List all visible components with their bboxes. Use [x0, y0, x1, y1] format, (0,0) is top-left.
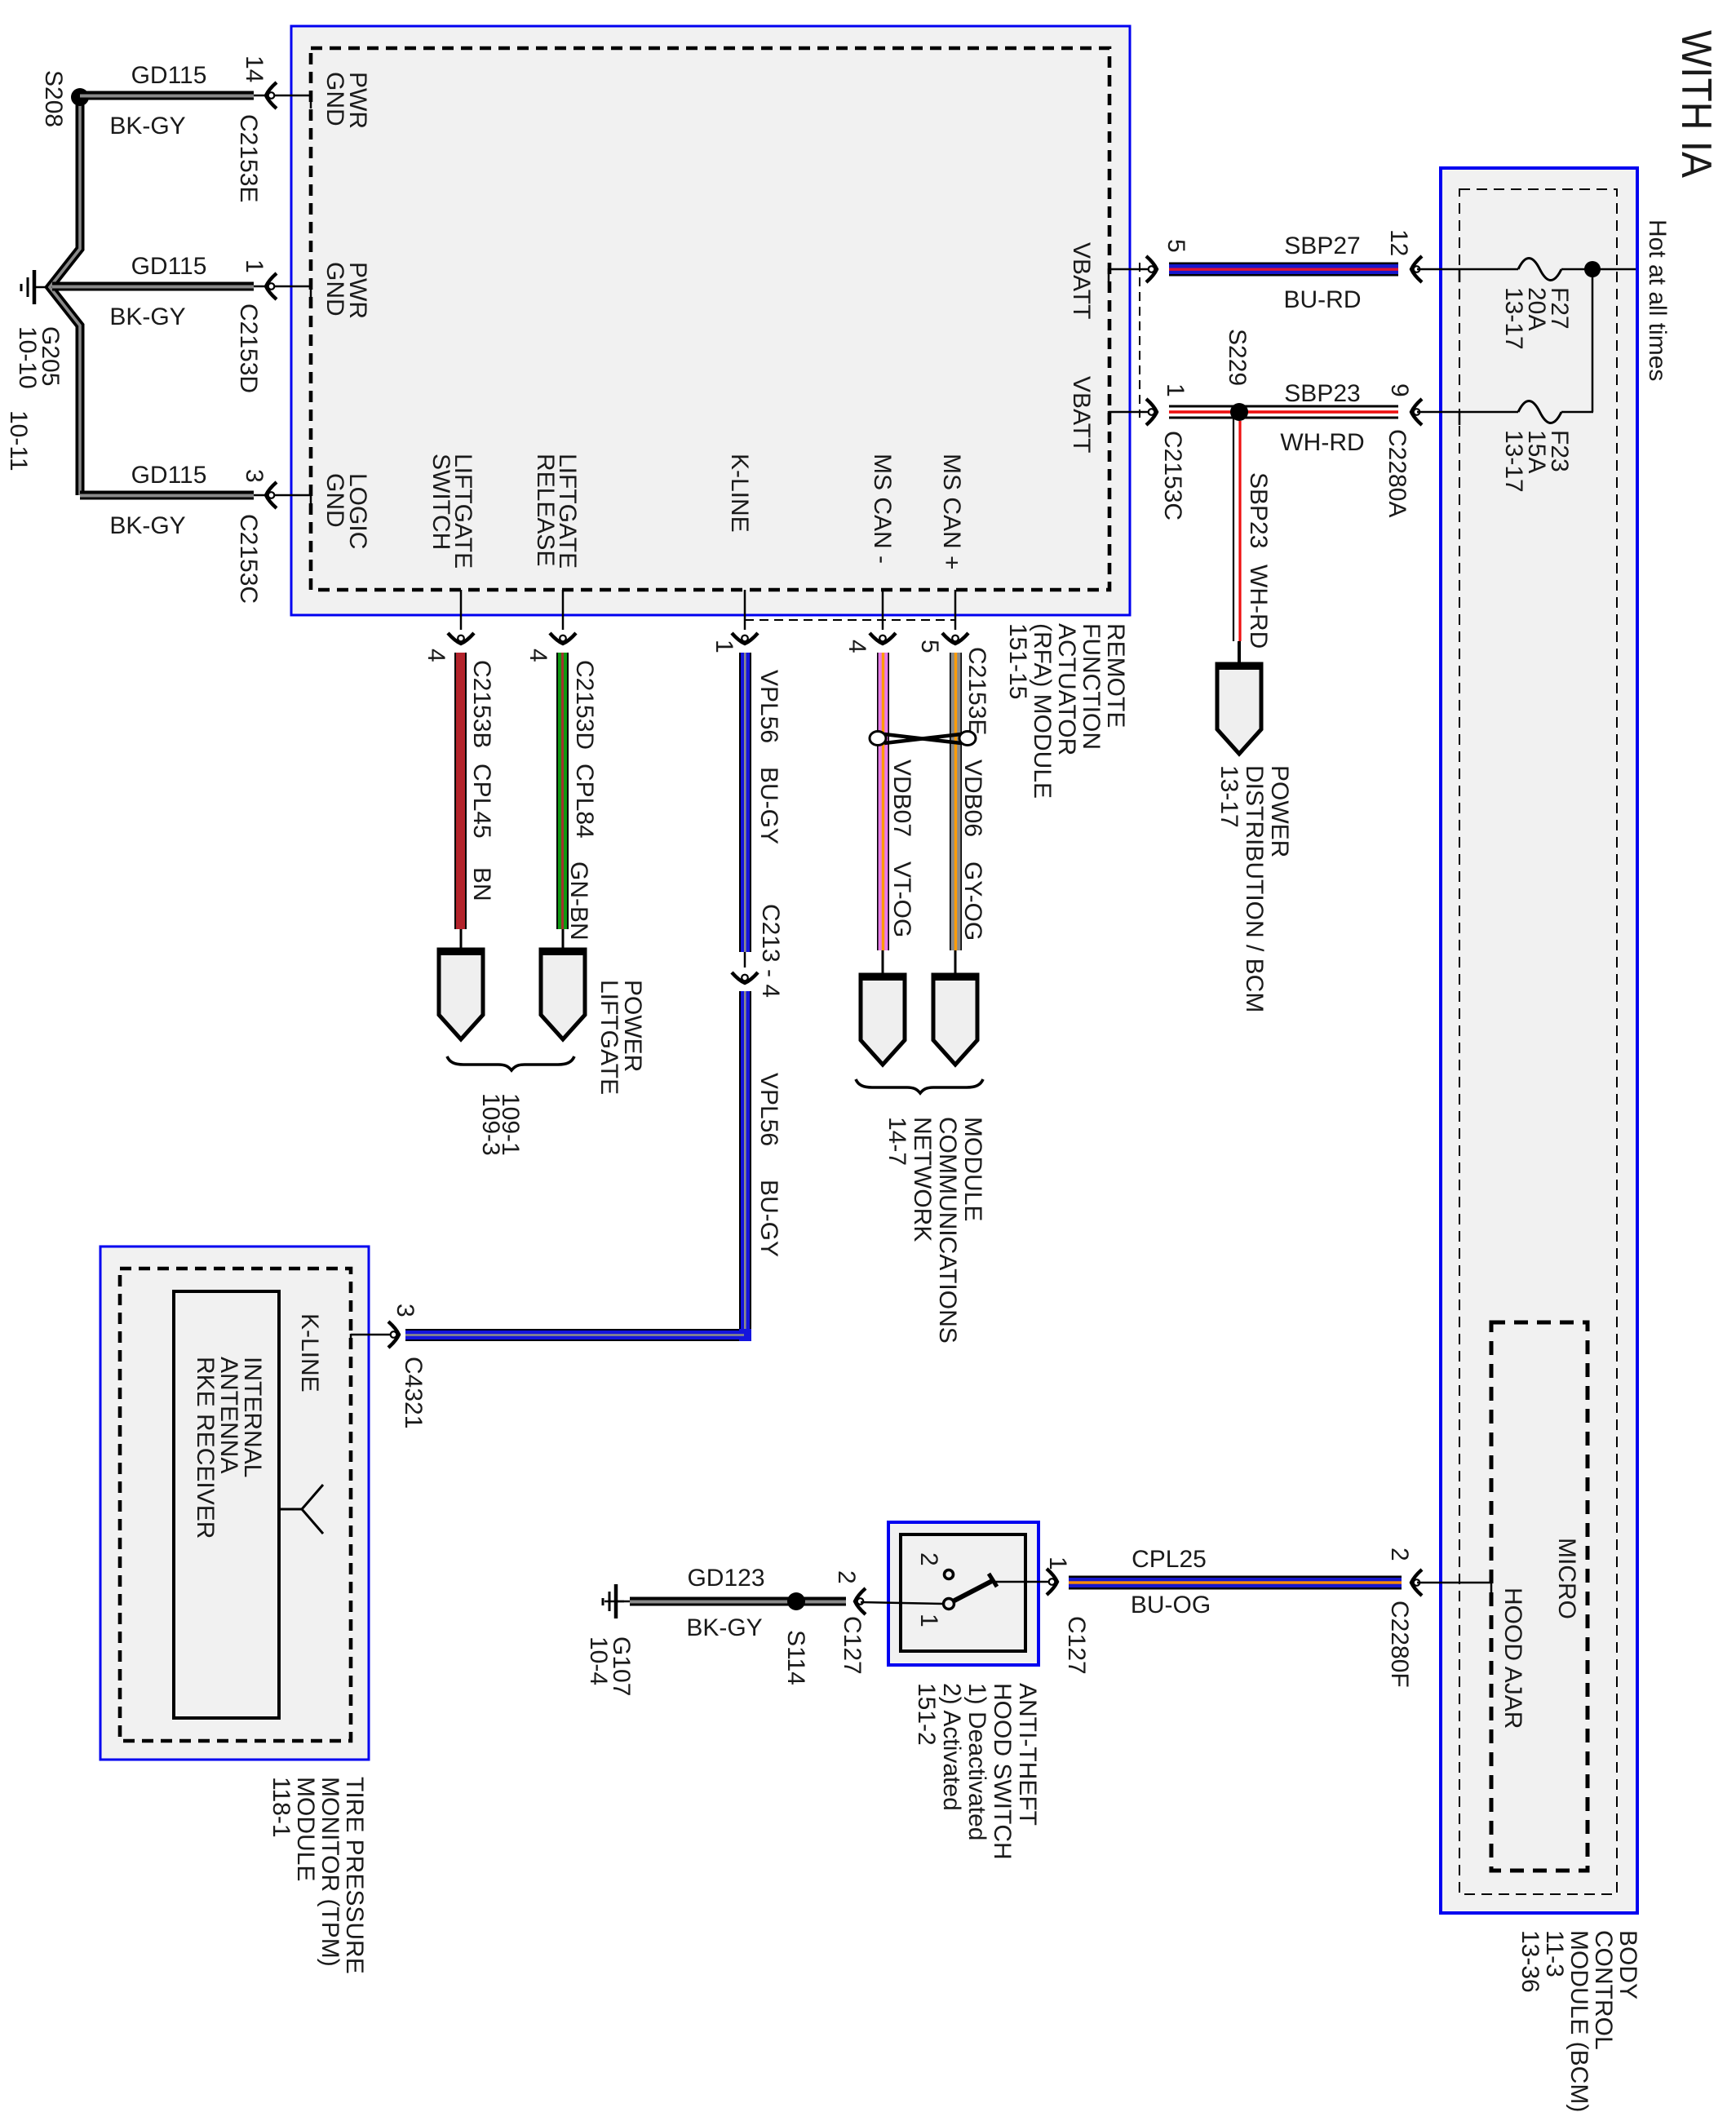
connector label C127 (right) — [1063, 1616, 1090, 1675]
svg-text:1: 1 — [241, 259, 268, 273]
connector arrow C2153E pin 5 — [942, 633, 968, 644]
svg-text:COMMUNICATIONS: COMMUNICATIONS — [934, 1117, 961, 1344]
wire fuse F27 to hot feed — [1561, 268, 1636, 271]
svg-text:14-7: 14-7 — [883, 1117, 910, 1166]
connector arrow C2153E pin 14 — [266, 82, 277, 108]
twisted pair crossing symbol — [870, 732, 976, 746]
wire SBP23 WH-RD — [1169, 405, 1398, 419]
svg-text:DISTRIBUTION / BCM: DISTRIBUTION / BCM — [1241, 765, 1268, 1012]
dashed connector grouping line (C2153C) — [1139, 263, 1140, 418]
label VPL56 (lower) — [755, 1073, 782, 1146]
svg-text:11-3: 11-3 — [1541, 1930, 1568, 1977]
pin label PWR GND (pin 14) — [321, 72, 371, 129]
label: REMOTE FUNCTION ACTUATOR (RFA) MODULE 151-15 — [1004, 623, 1129, 799]
svg-text:C2280F: C2280F — [1386, 1601, 1413, 1688]
brace POWER LIFTGATE — [447, 1056, 574, 1070]
pin label K-LINE — [726, 454, 753, 533]
svg-text:GND: GND — [321, 72, 348, 126]
wire lead MS CAN - pin 4 — [882, 590, 884, 630]
svg-text:BU-OG: BU-OG — [1131, 1592, 1211, 1618]
fuse F23 15A — [1518, 401, 1561, 423]
svg-text:MODULE: MODULE — [292, 1777, 319, 1881]
label Hot at all times — [1644, 219, 1671, 381]
dashed connector grouping line (bottom pins) — [745, 619, 955, 621]
svg-text:12: 12 — [1385, 229, 1412, 256]
connector arrow C213 pin 1 — [732, 633, 758, 644]
label BODY CONTROL MODULE (BCM) 11-3 13-36 — [1517, 1930, 1641, 2112]
svg-text:HOOD SWITCH: HOOD SWITCH — [989, 1683, 1016, 1860]
connector arrow C2153D pin 1 — [266, 273, 277, 299]
svg-text:S229: S229 — [1224, 329, 1251, 386]
off-page connector POWER LIFTGATE (switch) — [437, 950, 485, 1039]
connector label C2153D — [571, 660, 598, 750]
pin number 2 (C2280F) — [1386, 1548, 1413, 1561]
svg-text:ACTUATOR: ACTUATOR — [1053, 623, 1080, 755]
svg-text:C2153D: C2153D — [571, 660, 598, 750]
svg-text:14: 14 — [241, 55, 268, 82]
in-line connector arrow C213-4 — [732, 972, 758, 983]
label 10-11 — [5, 410, 32, 472]
svg-text:GY-OG: GY-OG — [959, 861, 986, 941]
connector label C2153E — [235, 114, 262, 202]
svg-text:VPL56: VPL56 — [755, 670, 782, 743]
connector arrow C2280A pin 9 — [1411, 399, 1422, 425]
label WITH IA — [1672, 30, 1720, 178]
module box: REMOTE FUNCTION ACTUATOR (RFA) MODULE — [291, 26, 1130, 615]
svg-text:(RFA) MODULE: (RFA) MODULE — [1029, 623, 1056, 799]
svg-text:MODULE: MODULE — [959, 1117, 986, 1221]
svg-text:RKE RECEIVER: RKE RECEIVER — [192, 1357, 219, 1539]
antenna symbol (RKE receiver) — [279, 1485, 323, 1534]
connector arrow C2153B pin 4 — [448, 633, 474, 644]
fuse F27 20A — [1518, 259, 1561, 281]
label S114 — [782, 1630, 809, 1685]
connector arrow C2153C pin 1 — [1146, 399, 1157, 425]
pin number 4 (MS CAN -) — [844, 640, 870, 653]
svg-text:10-4: 10-4 — [585, 1636, 612, 1685]
svg-text:REMOTE: REMOTE — [1102, 623, 1129, 728]
wire CPL45 BN — [454, 653, 467, 950]
wire CPL25 BU-OG — [1069, 1576, 1402, 1590]
brace MODULE COMMUNICATIONS NETWORK — [856, 1079, 983, 1093]
svg-text:VDB07: VDB07 — [888, 759, 915, 837]
svg-text:BK-GY: BK-GY — [109, 303, 185, 330]
connector arrow C2153E pin 4 — [870, 633, 896, 644]
junction S208 — [71, 88, 89, 106]
wire into BCM to fuse F23 — [1417, 411, 1518, 425]
wire VPL56 BU-GY lower segment with elbow to TPM — [405, 991, 751, 1341]
svg-text:BN: BN — [468, 867, 495, 901]
wire VPL56 BU-GY upper segment — [739, 653, 751, 968]
label TIRE PRESSURE MONITOR (TPM) MODULE 118-1 — [268, 1777, 368, 1974]
svg-text:K-LINE: K-LINE — [726, 454, 753, 533]
svg-text:MODULE (BCM): MODULE (BCM) — [1565, 1930, 1592, 2112]
connector label C2153C — [235, 514, 262, 604]
pin label MS CAN + — [938, 454, 965, 570]
svg-text:MS CAN -: MS CAN - — [869, 454, 896, 564]
pin number 4 (C2153B) — [423, 649, 449, 662]
svg-text:BU-GY: BU-GY — [755, 767, 782, 844]
switch blade — [953, 1574, 997, 1601]
svg-text:13-17: 13-17 — [1500, 430, 1527, 493]
svg-text:2: 2 — [915, 1552, 942, 1566]
label BN — [468, 867, 495, 901]
svg-text:1: 1 — [1044, 1556, 1071, 1570]
wire fuse F23 to junction — [1561, 411, 1593, 414]
pin label LOGIC GND (pin 3) — [321, 473, 371, 549]
label 109-1 109-3 — [477, 1093, 524, 1156]
svg-text:4: 4 — [423, 649, 449, 662]
pin label LIFTGATE SWITCH — [427, 454, 476, 569]
ground G205 symbol — [21, 270, 51, 304]
wire GD123 BK-GY — [618, 1597, 846, 1606]
label G107 10-4 — [585, 1636, 635, 1696]
svg-text:GND: GND — [321, 473, 348, 528]
pin number 1 — [1162, 383, 1189, 397]
wire CPL84 GN-BN — [556, 653, 569, 950]
connector label C2280F — [1386, 1601, 1413, 1688]
module box: TIRE PRESSURE MONITOR (TPM) MODULE — [100, 1246, 369, 1760]
svg-text:SWITCH: SWITCH — [427, 454, 454, 550]
svg-text:9: 9 — [1386, 383, 1413, 397]
label F27 20A 13-17 — [1500, 287, 1573, 350]
junction S229 — [1230, 403, 1248, 421]
svg-text:C2153E: C2153E — [235, 114, 262, 202]
connector arrow C127 pin 2 — [855, 1588, 866, 1614]
svg-text:MONITOR (TPM): MONITOR (TPM) — [317, 1777, 343, 1967]
pin number 2 (C127 left) — [833, 1570, 860, 1584]
off-page connector POWER LIFTGATE (release) — [539, 950, 587, 1039]
svg-text:5: 5 — [916, 640, 943, 653]
svg-text:ANTI-THEFT: ANTI-THEFT — [1014, 1683, 1041, 1826]
wire VDB06 GY-OG — [950, 653, 962, 975]
label S208 — [40, 70, 67, 127]
svg-text:CPL84: CPL84 — [571, 764, 598, 839]
wire junction down to fuse F23 — [1592, 269, 1594, 412]
svg-text:151-2: 151-2 — [913, 1683, 940, 1746]
svg-text:1: 1 — [915, 1614, 942, 1627]
svg-text:10-11: 10-11 — [5, 410, 32, 472]
svg-text:VT-OG: VT-OG — [888, 861, 915, 937]
module box: MICRO (inside BCM) — [1491, 1322, 1588, 1871]
svg-text:C2153C: C2153C — [1159, 431, 1186, 520]
svg-text:S208: S208 — [40, 70, 67, 127]
pin label PWR GND (pin 1) — [321, 262, 371, 319]
svg-text:VBATT: VBATT — [1068, 242, 1095, 319]
switch terminal 2 — [945, 1570, 954, 1579]
junction node (hot feed) — [1584, 261, 1601, 277]
svg-text:SBP23: SBP23 — [1284, 380, 1360, 407]
svg-text:2: 2 — [1386, 1548, 1413, 1561]
wire into BCM to fuse F27 — [1417, 268, 1518, 282]
switch box: ANTI-THEFT HOOD SWITCH — [888, 1522, 1038, 1665]
svg-text:BK-GY: BK-GY — [109, 512, 185, 539]
svg-text:C2153B: C2153B — [468, 660, 495, 748]
label INTERNAL ANTENNA RKE RECEIVER — [192, 1357, 266, 1539]
svg-text:BU-GY: BU-GY — [755, 1180, 782, 1257]
svg-text:GD115: GD115 — [131, 253, 207, 280]
svg-text:4: 4 — [844, 640, 870, 653]
connector arrow C127 pin 1 — [1047, 1569, 1057, 1595]
pin number 1 (K-LINE) — [711, 640, 737, 653]
connector label C2280A — [1384, 429, 1410, 517]
label SBP23 (vertical wire) — [1245, 472, 1272, 548]
module box: BODY CONTROL MODULE (BCM) — [1441, 168, 1637, 1913]
wire lead MS CAN + pin 5 — [954, 590, 957, 630]
pin label MS CAN - — [869, 454, 896, 564]
label VDB07 — [888, 759, 915, 837]
svg-text:CPL45: CPL45 — [468, 764, 495, 839]
svg-text:NETWORK: NETWORK — [909, 1117, 936, 1242]
wire GD115 BK-GY (pin 3) — [80, 491, 311, 509]
svg-text:4: 4 — [525, 649, 551, 662]
svg-text:C127: C127 — [839, 1616, 866, 1675]
wire into BCM micro (hood ajar) — [1417, 1582, 1491, 1596]
svg-text:BU-RD: BU-RD — [1284, 286, 1362, 313]
svg-text:C213 - 4: C213 - 4 — [757, 904, 784, 998]
svg-text:FUNCTION: FUNCTION — [1078, 623, 1105, 750]
wire lead RFA VBATT pin 5 — [1109, 268, 1154, 282]
svg-text:CONTROL: CONTROL — [1590, 1930, 1617, 2050]
connector label C4321 — [400, 1357, 427, 1428]
svg-text:1: 1 — [711, 640, 737, 653]
svg-text:GD115: GD115 — [131, 462, 207, 489]
junction S114 — [787, 1592, 805, 1610]
wire SBP23 WH-RD vertical drop from S229 — [1233, 418, 1240, 664]
svg-text:GN-BN: GN-BN — [565, 861, 592, 941]
svg-text:5: 5 — [1162, 239, 1189, 253]
label BU-GY (upper) — [755, 767, 782, 844]
connector label C2153E (MS CAN) — [963, 647, 990, 735]
label MODULE COMMUNICATIONS NETWORK 14-7 — [883, 1117, 986, 1344]
svg-text:GD115: GD115 — [131, 62, 207, 89]
svg-text:WH-RD: WH-RD — [1245, 565, 1272, 649]
wire GD115 BK-GY (pin 1) — [52, 282, 311, 300]
svg-text:13-17: 13-17 — [1216, 765, 1242, 828]
wire lead LIFTGATE SWITCH pin 4 — [460, 590, 463, 630]
connector label C127 (left) — [839, 1616, 866, 1675]
pin number 5 — [1162, 239, 1189, 253]
label 2 (inside switch) — [915, 1552, 942, 1566]
svg-text:C2153E: C2153E — [963, 647, 990, 735]
connector arrow C2280F pin 2 — [1411, 1570, 1422, 1596]
svg-text:Hot at all times: Hot at all times — [1644, 219, 1671, 381]
pin label LIFTGATE RELEASE — [532, 454, 581, 569]
label POWER DISTRIBUTION / BCM 13-17 — [1216, 765, 1293, 1012]
pin number 14 — [241, 55, 268, 82]
svg-text:10-10: 10-10 — [14, 326, 41, 389]
svg-text:VPL56: VPL56 — [755, 1073, 782, 1146]
wire lead TPM K-LINE pin 3 — [351, 1334, 395, 1348]
connector arrow C2153C pin 5 — [1146, 256, 1157, 282]
pin number 9 — [1386, 383, 1413, 397]
svg-text:HOOD AJAR: HOOD AJAR — [1499, 1587, 1526, 1729]
wire SBP27 BU-RD — [1169, 263, 1398, 277]
label VPL56 (upper) — [755, 670, 782, 743]
svg-text:MS CAN +: MS CAN + — [938, 454, 965, 570]
wire lead K-LINE pin 1 — [744, 590, 746, 630]
svg-text:13-36: 13-36 — [1517, 1930, 1543, 1993]
connector label C213 - 4 — [757, 904, 784, 998]
label 1 (inside switch) — [915, 1614, 942, 1627]
svg-text:CPL25: CPL25 — [1131, 1546, 1207, 1573]
svg-text:C127: C127 — [1063, 1616, 1090, 1675]
svg-text:3: 3 — [241, 469, 268, 483]
label BU-GY (lower) — [755, 1180, 782, 1257]
wire blade to switch pin 1 — [994, 1581, 1053, 1583]
svg-text:1) Deactivated: 1) Deactivated — [963, 1683, 990, 1840]
svg-text:K-LINE: K-LINE — [296, 1313, 323, 1393]
switch terminal 1 (pivot) — [944, 1599, 954, 1610]
label MICRO — [1553, 1538, 1580, 1619]
label GY-OG — [959, 861, 986, 941]
svg-text:S114: S114 — [782, 1630, 809, 1685]
svg-text:TIRE PRESSURE: TIRE PRESSURE — [341, 1777, 368, 1974]
label G205 10-10 — [14, 326, 64, 389]
svg-text:BK-GY: BK-GY — [109, 113, 185, 139]
connector arrow C2153C pin 3 — [266, 482, 277, 508]
svg-text:BODY: BODY — [1614, 1930, 1641, 1999]
wire trunk from S208 to ground (BK-GY double line) — [50, 97, 80, 495]
connector label C2153C — [1159, 431, 1186, 520]
label POWER LIFTGATE — [596, 980, 646, 1095]
svg-text:BK-GY: BK-GY — [686, 1614, 762, 1641]
svg-text:109-3: 109-3 — [477, 1093, 504, 1156]
wire VDB07 VT-OG — [877, 653, 889, 975]
connector arrow C2280A pin 12 — [1411, 256, 1422, 282]
label S229 — [1224, 329, 1251, 386]
pin number 4 (C2153D) — [525, 649, 551, 662]
pin number 5 (MS CAN +) — [916, 640, 943, 653]
svg-text:WITH IA: WITH IA — [1672, 30, 1720, 178]
svg-text:1: 1 — [1162, 383, 1189, 397]
svg-text:GND: GND — [321, 262, 348, 317]
svg-text:C2153C: C2153C — [235, 514, 262, 604]
pin number 1 — [241, 259, 268, 273]
label VT-OG — [888, 861, 915, 937]
wire lead LIFTGATE RELEASE pin 4 — [562, 590, 565, 630]
svg-text:GD123: GD123 — [687, 1565, 764, 1592]
pin number 1 (C127 right) — [1044, 1556, 1071, 1570]
svg-text:RELEASE: RELEASE — [532, 454, 559, 566]
wire lead RFA VBATT pin 1 — [1109, 411, 1154, 425]
label CPL45 — [468, 764, 495, 839]
label VDB06 — [959, 759, 986, 837]
wire into hood switch — [861, 1602, 944, 1604]
svg-text:C2280A: C2280A — [1384, 429, 1410, 517]
ground G107 symbol — [603, 1584, 624, 1618]
pin label K-LINE (TPM) — [296, 1313, 323, 1393]
svg-text:118-1: 118-1 — [268, 1777, 294, 1838]
pin label VBATT (pin 1) — [1068, 376, 1095, 453]
pin number 3 — [241, 469, 268, 483]
connector arrow C2153D pin 4 — [550, 633, 576, 644]
svg-text:VBATT: VBATT — [1068, 376, 1095, 453]
connector arrow C4321 pin 3 — [388, 1322, 399, 1348]
label F23 15A 13-17 — [1500, 430, 1573, 493]
svg-text:MICRO: MICRO — [1553, 1538, 1580, 1619]
svg-text:3: 3 — [392, 1304, 418, 1317]
svg-text:WH-RD: WH-RD — [1280, 429, 1364, 456]
svg-text:151-15: 151-15 — [1004, 623, 1031, 699]
label WH-RD (vertical wire) — [1245, 565, 1272, 649]
off-page connector MS CAN - — [859, 975, 906, 1065]
pin label VBATT (pin 5) — [1068, 242, 1095, 319]
connector label C2153D — [235, 303, 262, 393]
off-page connector MS CAN + — [932, 975, 979, 1065]
svg-text:SBP27: SBP27 — [1284, 232, 1360, 259]
svg-text:C2153D: C2153D — [235, 303, 262, 393]
svg-text:VDB06: VDB06 — [959, 759, 986, 837]
svg-text:2: 2 — [833, 1570, 860, 1584]
svg-text:2) Activated: 2) Activated — [938, 1683, 965, 1811]
pin number 12 — [1385, 229, 1412, 256]
svg-text:POWER: POWER — [1266, 765, 1293, 857]
label CPL84 — [571, 764, 598, 839]
pin number 3 — [392, 1304, 418, 1317]
svg-text:C4321: C4321 — [400, 1357, 427, 1428]
svg-text:13-17: 13-17 — [1500, 287, 1527, 350]
label ANTI-THEFT HOOD SWITCH 1) Deactivated 2) Activated 151-2 — [913, 1683, 1041, 1860]
wire GD115 BK-GY (pin 14) — [80, 91, 311, 109]
svg-text:SBP23: SBP23 — [1245, 472, 1272, 548]
label GN-BN — [565, 861, 592, 941]
connector label C2153B — [468, 660, 495, 748]
off-page connector POWER DISTRIBUTION / BCM — [1216, 664, 1263, 754]
svg-text:LIFTGATE: LIFTGATE — [596, 980, 622, 1095]
label HOOD AJAR — [1499, 1587, 1526, 1729]
